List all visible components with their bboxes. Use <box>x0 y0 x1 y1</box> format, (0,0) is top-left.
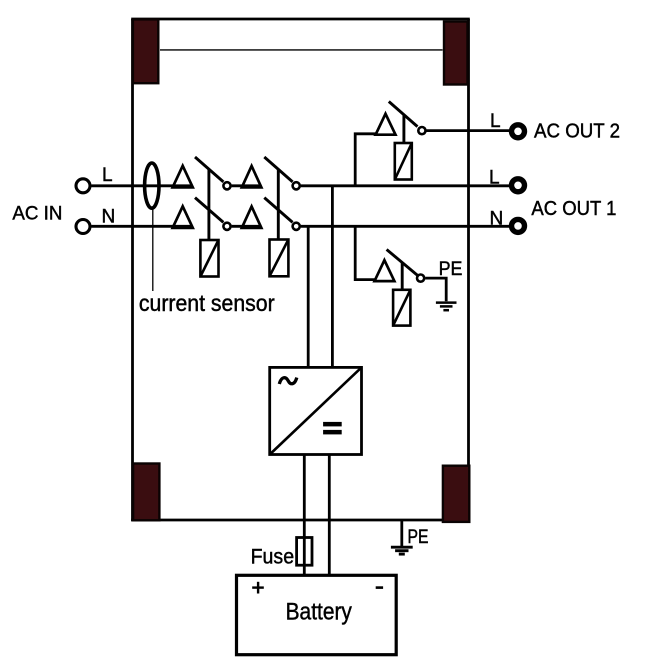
svg-text:Fuse: Fuse <box>251 545 295 569</box>
svg-text:N: N <box>490 208 504 229</box>
svg-text:AC OUT 1: AC OUT 1 <box>531 198 616 220</box>
svg-text:PE: PE <box>408 526 429 548</box>
svg-text:current sensor: current sensor <box>139 290 275 316</box>
svg-text:N: N <box>102 206 116 227</box>
svg-text:L: L <box>490 111 501 132</box>
svg-text:PE: PE <box>439 258 463 280</box>
svg-text:L: L <box>102 165 113 186</box>
svg-text:Battery: Battery <box>286 599 353 626</box>
svg-text:AC OUT 2: AC OUT 2 <box>534 121 620 143</box>
svg-text:L: L <box>489 167 500 188</box>
svg-text:AC IN: AC IN <box>12 203 62 225</box>
